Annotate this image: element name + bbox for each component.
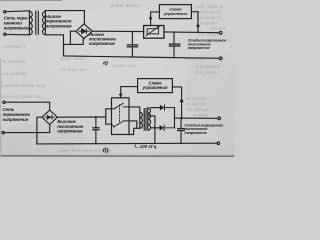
svg-text:о выпрямит: о выпрямит <box>196 64 222 69</box>
svg-text:ряжения низкое напр: ряжения низкое напр <box>2 83 46 88</box>
diode D1 <box>165 105 175 111</box>
svg-text:ти применя: ти применя <box>2 59 26 64</box>
svg-text:управления: управления <box>142 85 168 90</box>
switch S2 (lower) <box>112 121 130 127</box>
inverter (chopper) box <box>112 98 130 135</box>
rectifier U2 (bridge diamond) <box>42 110 57 124</box>
wire rectifier bottom vertex to rail link <box>64 39 84 45</box>
wire secondary bottom down to ground rail <box>45 35 63 56</box>
control wire to inverter (arrow down) <box>121 87 138 98</box>
svg-text:и вторичн: и вторичн <box>196 21 217 26</box>
rectifier U1 (bridge diamond) <box>76 24 93 39</box>
svg-text:напряжения: напряжения <box>4 26 31 31</box>
diode D2 <box>164 125 174 131</box>
wire secondary top to rectifier <box>45 11 84 24</box>
svg-text:напряжение: напряжение <box>46 23 73 28</box>
secondary bottom lead to diode D2 <box>151 127 160 129</box>
node dot C2/top <box>173 31 175 33</box>
bottom rail (diagram b) <box>37 142 217 145</box>
rectifier U2 diode symbol <box>45 115 55 119</box>
node dot feedback b <box>181 117 183 119</box>
svg-text:сети, поступает на п: сети, поступает на п <box>2 94 44 99</box>
svg-text:стоянного т: стоянного т <box>2 44 25 49</box>
capacitor C1 <box>127 32 137 57</box>
node dot C1/top <box>132 31 134 33</box>
main dc wire (diagram a) <box>92 30 143 32</box>
control box a <box>159 5 191 19</box>
svg-text:напряжение: напряжение <box>188 45 211 50</box>
input terminal b (bottom) <box>2 132 4 134</box>
input terminal (top, mains) <box>4 11 6 13</box>
wire rectifier left vertex to bottom rail <box>37 117 42 144</box>
wire inverter to transformer primary (lower) <box>129 121 140 135</box>
wire rectifier left vertex to riser <box>70 31 75 44</box>
svg-text:f...100 кГц: f...100 кГц <box>134 144 156 149</box>
rectifier U1 diode symbol <box>79 29 90 34</box>
feedback wire from output (arrow up) <box>191 12 198 33</box>
transformer T2 core <box>144 109 146 131</box>
control wire to regulator (arrow down) <box>151 12 160 26</box>
svg-text:жения. вообщ: жения. вообщ <box>110 3 140 8</box>
svg-text:а): а) <box>103 61 108 67</box>
transformer T2 primary winding <box>140 112 143 128</box>
mechanical coupling (dashed) <box>118 105 120 124</box>
transformer T1 secondary winding <box>43 11 46 35</box>
output terminal b (bottom) <box>217 142 220 145</box>
feedback wire b (arrow up) <box>172 87 181 118</box>
svg-text:напряжение: напряжение <box>89 41 116 46</box>
svg-text:и остальн: и остальн <box>196 70 217 75</box>
left page edge shading <box>0 58 1 157</box>
secondary top lead to diode D1 <box>151 107 160 109</box>
input terminal (bottom, mains) <box>4 33 6 35</box>
ghost print-through text (decorative background texture) <box>2 3 227 156</box>
capacitor C2 <box>169 32 179 58</box>
regulator element box (series regulator) <box>144 26 164 39</box>
switch S1 (upper) <box>112 103 130 109</box>
svg-text:ни обходи: ни обходи <box>187 107 209 112</box>
svg-text:напряжение: напряжение <box>184 130 207 135</box>
transformer T1 core <box>36 11 39 34</box>
faint top-left page rule <box>0 0 62 2</box>
svg-text:стояни: стояни <box>193 113 208 118</box>
svg-text:напряжен и: напряжен и <box>196 10 221 15</box>
svg-text:напряжение: напряжение <box>57 129 83 134</box>
output terminal b (top) <box>218 117 221 120</box>
dc wire to inverter <box>57 116 105 118</box>
capacitor C4 <box>178 118 185 143</box>
node dot C3 top <box>95 116 97 118</box>
node dot feedback <box>197 31 199 33</box>
output terminal a (bottom) <box>219 57 222 60</box>
svg-text:ой сети, пост: ой сети, пост <box>60 66 89 72</box>
node: rail junction left <box>63 44 65 56</box>
wire D1 to output node <box>174 108 176 119</box>
wire D2 to output node <box>174 118 176 128</box>
wire <box>6 33 29 35</box>
page rule at bottom <box>0 153 235 158</box>
output wire b <box>175 117 218 119</box>
svg-text:напряжения: напряжения <box>3 117 29 122</box>
input terminal b (top) <box>3 101 5 103</box>
center tap wire to rail <box>148 116 155 143</box>
transformer T1 primary winding <box>29 11 32 35</box>
wire <box>6 10 29 13</box>
control box b <box>138 79 173 93</box>
svg-text:ний, несколь: ний, несколь <box>196 3 224 9</box>
transformer T2 secondary winding <box>148 108 151 131</box>
wire to rectifier bottom vertex <box>4 125 49 133</box>
svg-text:ное действи: ное действи <box>2 71 28 76</box>
capacitor C3 <box>93 117 99 144</box>
svg-text:ем полупр: ем полупр <box>185 96 207 101</box>
svg-text:удвоен запр: удвоен запр <box>112 63 136 68</box>
bottom rail (diagram a) <box>64 56 220 58</box>
svg-text:управления: управления <box>163 11 187 16</box>
inverter input bus <box>106 109 112 124</box>
output terminal a (top) <box>219 31 222 34</box>
regulator arrow (variable symbol) <box>146 26 159 36</box>
svg-text:пряжения с: пряжения с <box>196 15 221 20</box>
wire inverter to transformer primary (upper) <box>129 107 140 112</box>
svg-text:готовле: готовле <box>210 26 227 31</box>
wire to rectifier top vertex <box>5 102 50 110</box>
svg-text:на высоко: на высоко <box>185 102 207 107</box>
